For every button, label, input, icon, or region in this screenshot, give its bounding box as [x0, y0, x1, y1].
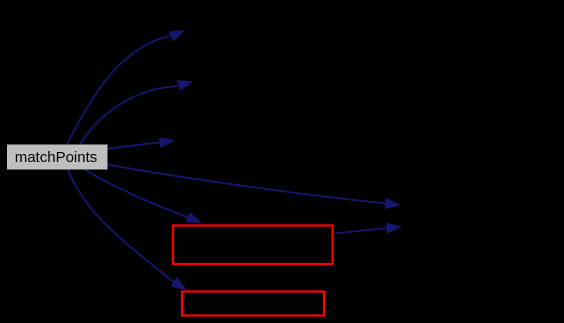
edge E4 (matchPoints -> far right node) [108, 165, 386, 204]
edge E3 (matchPoints -> third node) [108, 142, 160, 148]
edge E6 (matchPoints -> red box 2) [68, 170, 174, 283]
edge E7 (red box 1 -> far right node) [334, 228, 387, 233]
arrowhead A6 [171, 277, 187, 290]
arrowhead A2 [177, 80, 193, 91]
red box 2 (truncated node) [182, 292, 324, 316]
node matchPoints [7, 145, 108, 170]
edge E2 (matchPoints -> second node) [80, 86, 178, 144]
arrowhead A4 [384, 198, 400, 209]
arrowhead A5 [186, 212, 203, 223]
arrowhead A3 [159, 137, 175, 148]
arrowhead A1 [169, 30, 185, 42]
edge E5 (matchPoints -> red box 1) [85, 170, 188, 218]
arrowhead A7 [386, 223, 402, 234]
edge E1 (matchPoints -> top node) [67, 36, 170, 144]
red box 1 (truncated node) [173, 226, 333, 265]
svg-text:matchPoints: matchPoints [15, 149, 98, 166]
